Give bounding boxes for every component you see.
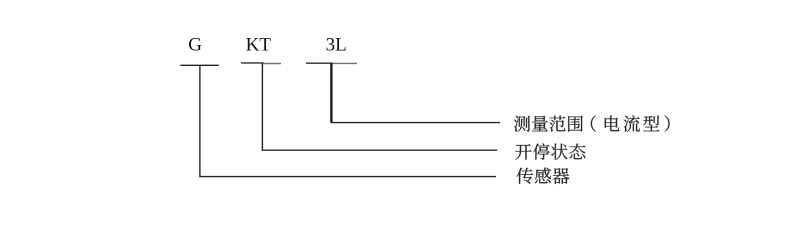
label 传感器 bbox=[517, 168, 570, 184]
label 开停状态 bbox=[515, 143, 585, 159]
wire from KT underline down then right to label 开停状态 bbox=[262, 63, 497, 150]
underline under G bbox=[180, 64, 219, 66]
thick vertical segment of 3L wire bbox=[330, 63, 332, 122]
svg-text:3L: 3L bbox=[326, 34, 347, 55]
underline under 3L, gray right part bbox=[333, 62, 358, 64]
label 测量范围（电流型） bbox=[514, 115, 670, 131]
underline under KT, gray right part bbox=[263, 63, 282, 65]
wire from 3L underline down then right to label 测量范围 bbox=[331, 63, 500, 122]
underline under KT, dark left part bbox=[241, 62, 264, 64]
svg-text:G: G bbox=[188, 34, 202, 55]
underline under 3L, dark left part bbox=[306, 62, 333, 64]
wire from G underline down then right to label 传感器 bbox=[200, 65, 496, 176]
svg-text:KT: KT bbox=[246, 34, 272, 55]
